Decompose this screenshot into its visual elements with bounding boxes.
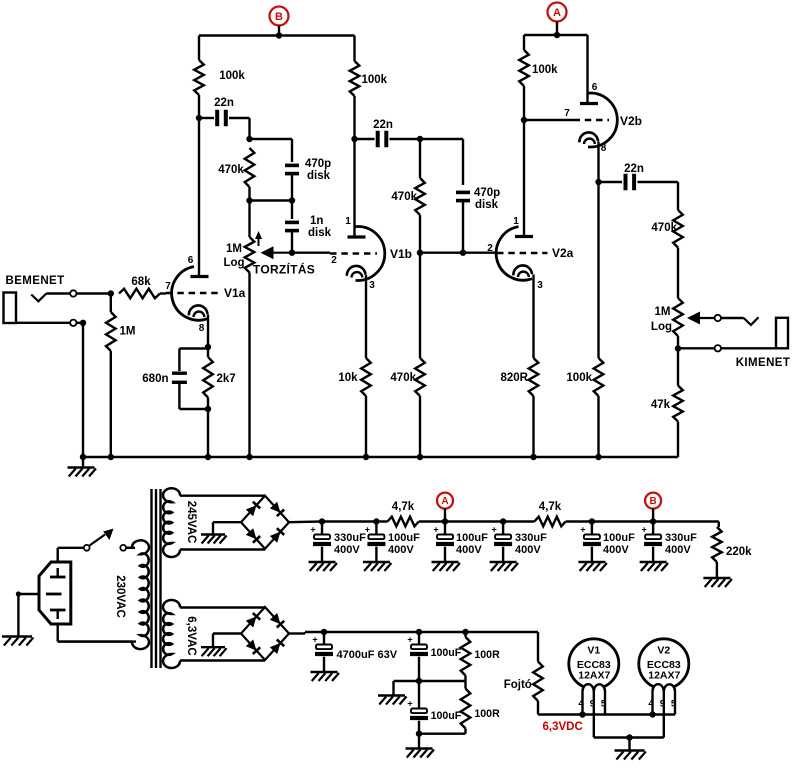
label 10k [338,372,358,384]
label V1b [390,247,412,261]
wire 6.3VDC line [538,711,675,717]
label 4,7k 2 [539,501,562,513]
pin 2 V1b [331,255,337,266]
svg-text:330uF: 330uF [515,532,547,544]
svg-text:Log: Log [651,321,672,333]
svg-text:2: 2 [331,255,337,266]
label 22n V1b [373,119,393,131]
input jack (BEMENET) [4,293,17,324]
pin 4 V1 [578,692,584,715]
resistor 470k (output upper) [673,182,683,298]
wire heater rail [324,631,538,633]
wire heater mid node [394,678,466,684]
resistor 100k (V2a plate load) [519,35,529,123]
tip terminal [70,290,114,296]
svg-text:B: B [649,496,656,507]
svg-text:220k: 220k [726,546,752,558]
jack sleeve wire [16,320,86,326]
svg-text:400V: 400V [603,544,629,556]
pin 2 V2a [487,243,493,254]
svg-text:680n: 680n [142,373,168,385]
bridge rectifier (heater) [241,607,289,660]
wire A rail [524,34,588,36]
label 470k out [651,222,677,234]
svg-text:100k: 100k [566,372,592,384]
label V1a [224,286,246,300]
label 470p disk [305,158,331,182]
node A (top) [548,3,567,39]
svg-text:V1: V1 [587,645,600,657]
jack tip contact out [744,317,759,325]
label 330uF 400V 1 [334,532,366,556]
wire ground rail [83,456,678,459]
ground 4700uF [311,672,339,681]
triode V2a [496,227,547,281]
resistor 2k7 (cathode) [203,347,213,457]
svg-text:4,7k: 4,7k [539,501,562,513]
label 47k [651,399,671,411]
svg-text:6: 6 [188,255,194,266]
wire B+ rail [322,520,719,522]
node B (B+ supply, top) [270,7,289,39]
svg-text:470p: 470p [474,187,500,199]
svg-text:22n: 22n [624,163,644,175]
svg-text:245VAC: 245VAC [185,501,197,544]
power switch [84,529,135,551]
svg-text:6,3VDC: 6,3VDC [543,721,583,733]
ground heater mid [378,681,406,705]
label 330uF 400V 2 [515,532,547,556]
svg-text:2k7: 2k7 [217,373,236,385]
ground (HT bridge) [201,522,241,543]
svg-text:+: + [407,635,412,645]
triode V1b [330,227,385,281]
svg-text:100uF: 100uF [388,532,420,544]
label 4700uF 63V [337,649,398,661]
label 100k V2a [532,64,558,76]
capacitor 330uF 400V (node B) [641,518,662,561]
label 22n out [624,163,644,175]
capacitor 100uF (heater lower) [407,681,428,734]
capacitor 100uF 400V (3rd) [580,518,601,561]
transformer core [152,489,161,668]
pin 9 V2 [660,692,665,738]
svg-text:470k: 470k [391,191,417,203]
label 230VAC [114,575,126,618]
label 100uF h2 [431,710,462,722]
wire V1a plate lead [198,118,200,277]
svg-text:3: 3 [537,280,543,291]
capacitor 470p disk [285,164,299,204]
capacitor 470p disk 2 [456,139,470,256]
svg-text:V2a: V2a [552,246,574,260]
label TORZITAS [253,262,315,277]
resistor 100k (V2b cathode load) [594,182,604,457]
pin 8 V2b [601,143,607,154]
svg-text:100uF: 100uF [603,532,635,544]
svg-text:TORZÍTÁS: TORZÍTÁS [253,262,315,277]
pin 3 V2a [537,280,543,291]
node A (psu) [437,493,453,522]
svg-text:+: + [365,525,370,535]
svg-text:100k: 100k [219,70,245,82]
svg-text:8: 8 [601,143,607,154]
svg-text:+: + [312,635,317,645]
svg-text:V1a: V1a [224,286,246,300]
label 1M [120,326,136,338]
wire earth [16,591,39,636]
triode V2b [574,93,618,147]
pin 7 V1a [165,281,171,292]
wire V2b cathode [595,142,601,186]
svg-text:disk: disk [307,170,331,182]
bridge rectifier (HT) [241,496,289,549]
svg-text:A: A [441,496,448,507]
svg-text:+: + [641,525,646,535]
node B (psu) [645,493,661,522]
svg-text:1M: 1M [120,326,136,338]
resistor 470k (distortion network) [245,148,255,204]
svg-text:2: 2 [487,243,493,254]
transformer secondary 6.3VAC [163,600,265,668]
svg-text:1M: 1M [655,306,671,318]
svg-text:4,7k: 4,7k [392,501,415,513]
label 330uF 400V B [665,532,697,556]
ground (heater bridge) [201,634,241,657]
pin 5 V2 [671,692,677,715]
label Fojto [504,679,532,691]
svg-text:100k: 100k [532,64,558,76]
label 68k [131,276,151,288]
label 100uF h1 [431,647,462,659]
ground 220k [703,578,731,587]
pin 5 V1 [601,692,607,715]
resistor 1M (input load) [106,294,116,458]
wire heater return [594,734,664,740]
svg-text:disk: disk [308,227,332,239]
wire B+ rail top-left [199,34,355,36]
svg-text:Log: Log [223,257,244,269]
svg-text:V1b: V1b [390,247,412,261]
wire V2b grid wire [524,119,574,121]
pin 6 V1a [188,255,194,266]
potentiometer 1M Log (TORZITAS) [245,201,255,458]
svg-text:12AX7: 12AX7 [648,670,680,682]
pin 4 V2 [648,692,654,715]
label 100k follower [566,372,592,384]
label BEMENET [6,275,65,287]
svg-text:100R: 100R [474,649,500,661]
wire V2a cathode [532,275,534,359]
svg-text:4700uF 63V: 4700uF 63V [337,649,398,661]
label 22n [214,97,234,109]
mains inlet connector [39,562,71,624]
svg-text:470k: 470k [390,372,416,384]
junction dots on ground rail [80,454,602,460]
wire V2a grid line [420,251,497,253]
svg-text:100uF: 100uF [431,710,462,722]
wire neutral [58,624,136,642]
svg-text:9: 9 [590,699,595,710]
svg-text:4: 4 [578,699,584,710]
svg-text:+: + [407,699,412,709]
resistor 220k (bleeder) [712,522,722,578]
svg-text:400V: 400V [334,544,360,556]
svg-text:KIMENET: KIMENET [736,357,791,369]
label 1n disk [308,215,332,239]
resistor 100k (V1a plate load) [194,36,204,122]
resistor 820R (V2a cathode) [529,358,539,457]
svg-text:100uF: 100uF [431,647,462,659]
svg-text:V2: V2 [657,645,670,657]
svg-text:100k: 100k [362,74,388,86]
wire V1b plate lead [353,139,355,237]
label 1M Log out [651,306,672,333]
label KIMENET [736,357,791,369]
label 220k [726,546,752,558]
svg-text:470p: 470p [305,158,331,170]
resistor 68k (grid stopper) [119,289,166,299]
wire V2b plate lead [586,35,588,104]
capacitor 100uF (heater upper) [407,629,428,681]
label 6,3VDC [543,721,583,733]
label 470k [218,164,244,176]
svg-text:5: 5 [601,699,607,710]
ground c2 [363,562,391,571]
wire bridge1 to B+ rail [289,520,322,523]
ground c6 [640,562,668,571]
svg-text:1M: 1M [226,243,242,255]
svg-text:1: 1 [513,216,519,227]
resistor 100R (upper) [461,629,471,681]
transformer primary 230VAC [58,540,149,649]
wire wiper to V1b grid [292,251,330,253]
ground (mains earth) [2,637,33,646]
svg-text:disk: disk [475,199,499,211]
resistor 470k (V1b network upper) [415,139,425,256]
svg-text:100uF: 100uF [456,532,488,544]
svg-text:B: B [275,11,283,23]
svg-text:+: + [491,525,496,535]
svg-text:7: 7 [165,281,171,292]
capacitor 680n (cathode bypass) [172,349,211,413]
pot wiper arrow out [687,312,744,325]
svg-text:470k: 470k [651,222,677,234]
resistor 4,7k (filter 2) [534,517,565,527]
ground c1 [309,562,337,571]
label 2k7 [217,373,236,385]
ground heater bottom [406,734,434,758]
output jack (KIMENET) [776,318,788,349]
svg-text:3: 3 [369,280,375,291]
capacitor 100uF 400V (node A) [433,518,454,561]
svg-text:100R: 100R [474,708,500,720]
svg-text:1: 1 [345,216,351,227]
resistor 47k (output lower) [673,349,683,458]
svg-text:Fojtó: Fojtó [504,679,532,691]
svg-text:12AX7: 12AX7 [578,670,610,682]
label 245VAC [185,501,197,544]
svg-text:230VAC: 230VAC [114,575,126,618]
label 100k V1b [362,74,388,86]
jack sleeve wire out [678,345,776,351]
pin 6 V2b [592,82,598,93]
label 6,3VAC [185,616,197,655]
capacitor 330uF 400V (1st) [310,518,331,561]
svg-text:400V: 400V [388,544,414,556]
pin 3 V1b [369,280,375,291]
transformer secondary 245VAC [163,488,265,557]
label 100k [219,70,245,82]
svg-text:330uF: 330uF [665,532,697,544]
svg-text:A: A [553,7,561,19]
label 100R 2 [474,708,500,720]
wire node to 470p branch [250,139,293,162]
triode V1a [166,267,221,321]
resistor 470k (V2a grid leak) [415,253,425,457]
resistor 4,7k (filter 1) [388,517,419,527]
wire live to switch [58,548,84,562]
wire mid junction [250,199,293,201]
jack tip contact [31,294,70,302]
label 820R [501,372,529,384]
ground (amp section) [68,457,96,477]
label V2a [552,246,574,260]
svg-text:6,3VAC: 6,3VAC [185,616,197,655]
label 470k net [391,191,417,203]
resistor 10k (V1b cathode) [361,358,371,457]
wire V1b cathode [365,275,367,358]
svg-text:10k: 10k [338,372,358,384]
svg-text:400V: 400V [515,544,541,556]
svg-text:400V: 400V [665,544,691,556]
wire bridge2 to heater rail [289,632,324,634]
svg-text:8: 8 [199,323,205,334]
svg-text:820R: 820R [501,372,529,384]
wire V2a plate lead [523,120,525,237]
pin 1 V2a [513,216,519,227]
svg-text:4: 4 [648,699,654,710]
tube V1 ECC83 heater [569,639,619,692]
label V2b [620,114,642,128]
svg-text:6: 6 [592,82,598,93]
pin 9 V1 [590,692,595,738]
pin 7 V2b [564,108,570,119]
svg-text:V2b: V2b [620,114,642,128]
svg-text:7: 7 [564,108,570,119]
label 100uF 400V 3 [603,532,635,556]
label V2 [647,645,681,682]
svg-text:+: + [310,525,315,535]
capacitor 22n (V1b coupling) [355,131,464,148]
label 680n [142,373,168,385]
svg-text:470k: 470k [218,164,244,176]
ground heater return [615,738,646,760]
svg-text:22n: 22n [373,119,393,131]
pin 1 V1b [345,216,351,227]
choke Fojto [533,632,543,715]
capacitor 100uF 400V (1st) [365,518,386,561]
svg-text:+: + [433,525,438,535]
capacitor 330uF 400V (2nd) [491,518,512,561]
wire sleeve to ground rail [82,323,84,457]
ground c4 [490,562,518,571]
pot wiper arrow [255,231,292,259]
label 470k leak [390,372,416,384]
svg-text:400V: 400V [456,544,482,556]
label 1M Log [223,243,244,269]
capacitor 22n (output coupling) [599,174,679,191]
pin 8 V1a [199,323,205,334]
ground c3 [432,562,460,571]
label V1 [577,645,611,682]
svg-text:+: + [580,525,585,535]
svg-text:BEMENET: BEMENET [6,275,65,287]
svg-text:9: 9 [660,699,665,710]
resistor 100R (lower) [461,681,471,734]
label 100uF 400V 1 [388,532,420,556]
svg-text:5: 5 [671,699,677,710]
label 470p disk 2 [474,187,500,211]
svg-text:1n: 1n [310,215,323,227]
resistor 100k (V1b plate load) [350,36,360,143]
capacitor 4700uF 63V [312,629,333,672]
label 100uF 400V A [456,532,488,556]
svg-text:330uF: 330uF [334,532,366,544]
wire heater bottom node [416,731,466,737]
potentiometer 1M Log (volume) [673,298,683,352]
label 4,7k 1 [392,501,415,513]
ground c5 [578,562,606,571]
svg-text:47k: 47k [651,399,671,411]
wire V1a cathode [205,315,211,351]
tube V2 ECC83 heater [639,639,689,692]
svg-text:22n: 22n [214,97,234,109]
capacitor 1n disk [285,201,299,256]
svg-text:68k: 68k [131,276,151,288]
capacitor 22n (V1a coupling) [199,110,253,142]
label 100R 1 [474,649,500,661]
